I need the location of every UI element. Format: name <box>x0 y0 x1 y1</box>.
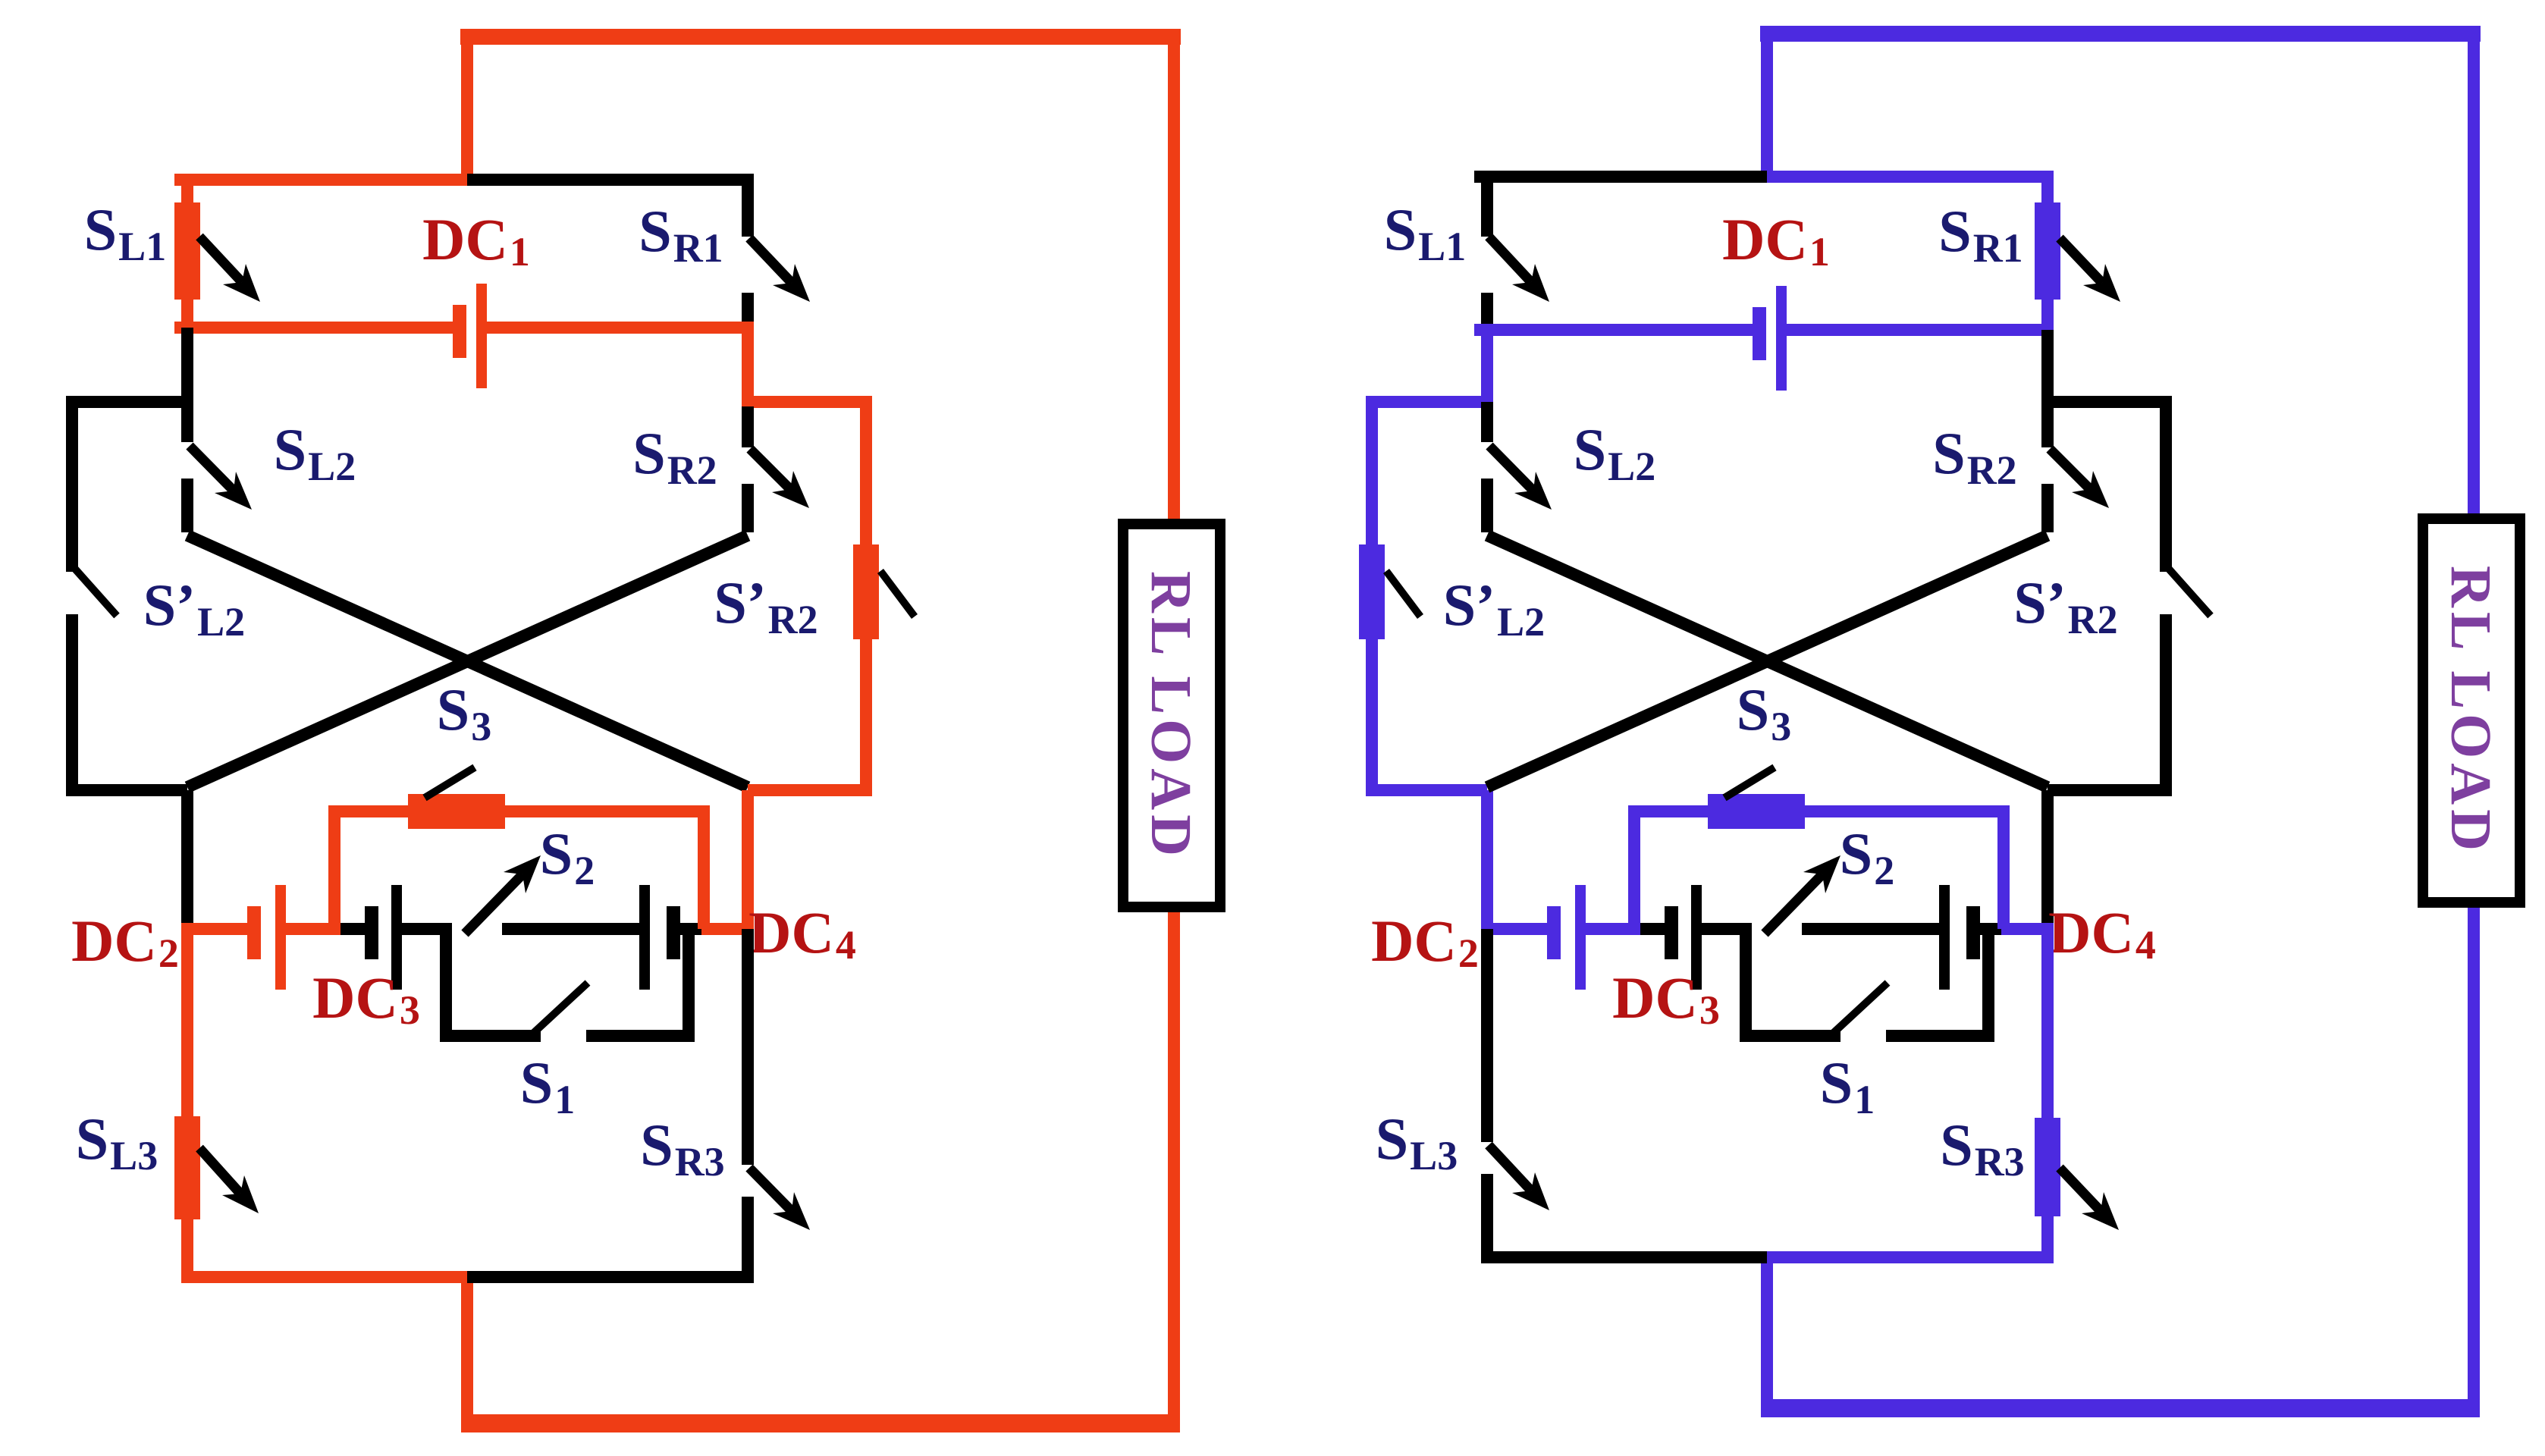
wire bottom rail right segment (left circuit) <box>467 1271 754 1283</box>
wire S'L2 leg lower stub (open) <box>66 614 78 790</box>
wire load top feeder (right circuit) <box>2468 33 2480 523</box>
switch S1 blade <box>527 983 588 1039</box>
wire left column down to DC2 node (right circuit) <box>1481 790 1493 929</box>
wire left column cell1-cell2 (right circuit) <box>1481 330 1493 408</box>
wire SL2 bottom stub (open) <box>181 479 193 532</box>
switch S3 blade <box>1724 767 1775 798</box>
svg-text:RL LOAD: RL LOAD <box>2439 566 2503 855</box>
wire top supply (right circuit) <box>1760 26 2481 42</box>
wire S3 loop top-left (left circuit) <box>328 805 413 817</box>
wire S'L2 leg upper stub (open) <box>66 402 78 572</box>
wire SR3 top stub (open) <box>742 929 754 1165</box>
battery DC1 tall thin plate <box>1776 286 1787 391</box>
wire DC1 rail left of battery (left circuit) <box>174 322 453 334</box>
wire right column down to DC4 node (right circuit) <box>2041 790 2054 929</box>
wire DC2 rail to S3 corner (right circuit) <box>1586 923 1640 935</box>
wire S3 loop left vertical (right circuit) <box>1628 811 1640 929</box>
wire cell-1 top rail left segment (right circuit) <box>1474 171 1767 183</box>
wire rail DC3 to S2 gap <box>1702 923 1752 935</box>
wire SR1 bottom stub (open) <box>742 293 754 328</box>
wire right leg bottom horizontal (left circuit) <box>748 784 872 796</box>
wire right column down to DC4 node (left circuit) <box>742 790 754 929</box>
wire SL3 top stub (open) <box>1481 929 1493 1142</box>
wire S1 loop bottom-left <box>1740 1030 1840 1042</box>
wire left leg bottom horizontal (left circuit) <box>66 784 187 796</box>
wire rail DC4 to node segment (black) <box>679 923 701 935</box>
wire SL2 bottom stub (open) <box>1481 479 1493 532</box>
wire crossing diagonal from SR2 to node B <box>187 535 748 787</box>
wire right column cell1-cell2 (right circuit) <box>2041 330 2054 408</box>
load RL LOAD box (right circuit) <box>2423 519 2520 902</box>
wire cell-1 top rail right segment (left circuit) <box>467 174 754 186</box>
wire S1 loop bottom-left <box>440 1030 541 1042</box>
wire S1 loop right vertical <box>683 929 695 1042</box>
switch S'R2 blade <box>880 571 915 617</box>
switch S3 closed contact bar <box>408 794 505 829</box>
wire rail DC4 node segment (right circuit) <box>2001 923 2054 935</box>
switch SL1 actuation arrow <box>199 237 242 282</box>
battery DC3 short thick plate <box>365 906 378 959</box>
wire rail DC4 to node segment (black) <box>1979 923 2001 935</box>
switch SR2 actuation arrow <box>750 449 790 489</box>
wire DC3 rail segment <box>1640 923 1665 935</box>
switch SL1 closed contact bar <box>174 202 200 300</box>
wire right branch horizontal (right circuit) <box>2048 396 2172 408</box>
wire S1 loop bottom-right <box>586 1030 695 1042</box>
wire S3 loop top-right (left circuit) <box>501 805 710 817</box>
label RL LOAD (right circuit) <box>2439 566 2503 855</box>
switch SL3 actuation arrow <box>1489 1145 1531 1191</box>
switch S3 closed contact bar <box>1708 794 1805 829</box>
switch S2 actuation arrow (crossing rail gap) <box>465 874 522 934</box>
wire bottom return (right circuit) <box>1761 1399 2480 1417</box>
wire SR1 top stub (open) <box>742 180 754 237</box>
wire SR2 top stub (open) <box>2041 406 2054 447</box>
wire top-wire left drop to cell-1 rail (right circuit) <box>1761 26 1773 177</box>
wire left leg bottom horizontal (right circuit) <box>1366 784 1487 796</box>
wire load top feeder (left circuit) <box>1168 36 1180 529</box>
battery DC3 short thick plate <box>1665 906 1678 959</box>
battery DC4 short thick plate <box>1966 906 1980 959</box>
switch S'L2 blade <box>74 567 117 616</box>
switch SR1 actuation arrow <box>749 238 792 283</box>
wire SL1 bottom stub (open) <box>1481 293 1493 330</box>
wire SL3 bottom stub (open) <box>1481 1174 1493 1257</box>
wire S1 loop left vertical <box>440 929 452 1042</box>
wire SL2 top stub (open) <box>181 402 193 442</box>
switch SL2 actuation arrow <box>1489 446 1533 491</box>
battery DC3 tall thin plate <box>1691 885 1702 990</box>
wire SL1 branch (closed, conducting) <box>181 180 193 328</box>
switch SR1 actuation arrow <box>2060 238 2102 283</box>
wire S'L2 leg (closed, conducting) <box>1366 402 1378 790</box>
wire S1 loop left vertical <box>1740 929 1752 1042</box>
battery DC2 short thick plate <box>1547 906 1561 959</box>
battery DC4 tall thin plate <box>1939 885 1950 990</box>
wire DC3 rail segment <box>340 923 366 935</box>
wire S3 loop top-right (right circuit) <box>1800 805 2010 817</box>
switch S'R2 closed contact bar <box>853 544 879 639</box>
wire top supply (left circuit) <box>460 29 1181 45</box>
switch SL3 closed contact bar <box>174 1116 200 1219</box>
wire SR2 top stub (open) <box>742 406 754 447</box>
battery DC4 tall thin plate <box>639 885 650 990</box>
switch SR2 actuation arrow <box>2050 449 2090 489</box>
wire S3 loop right vertical (right circuit) <box>1997 811 2010 929</box>
wire rail DC4 node segment (left circuit) <box>701 923 754 935</box>
wire SL2 top stub (open) <box>1481 402 1493 442</box>
switch SL2 actuation arrow <box>190 446 234 491</box>
wire DC2 rail from node (left circuit) <box>181 923 248 935</box>
wire SL1 top stub (open) <box>1481 177 1493 237</box>
wire cell-1 top rail left segment (left circuit) <box>174 174 467 186</box>
wire crossing diagonal from SR2 to node B <box>1487 535 2048 787</box>
wire bottom rail left segment (left circuit) <box>181 1271 473 1283</box>
wire S3 loop right vertical (left circuit) <box>698 811 710 929</box>
wire SR3 bottom stub (open) <box>742 1197 754 1277</box>
switch SR3 closed contact bar <box>2035 1118 2060 1216</box>
switch SR3 actuation arrow <box>2060 1168 2101 1211</box>
battery DC1 tall thin plate <box>476 284 487 388</box>
switch SR3 actuation arrow <box>749 1168 792 1211</box>
wire left branch horizontal (right circuit) <box>1366 396 1487 408</box>
battery DC1 short thick plate <box>1753 307 1766 360</box>
wire rail S2 gap to DC4 <box>1802 923 1942 935</box>
switch S2 actuation arrow (crossing rail gap) <box>1765 874 1822 934</box>
wire S3 loop top-left (right circuit) <box>1628 805 1713 817</box>
wire rail S2 gap to DC4 <box>502 923 642 935</box>
wire bottom rail left segment (right circuit) <box>1481 1251 1773 1263</box>
wire SL3 branch (closed, conducting) <box>181 929 193 1277</box>
wire load bottom feeder (right circuit) <box>2468 898 2480 1408</box>
battery DC3 tall thin plate <box>391 885 402 990</box>
wire S'R2 leg (closed, conducting) <box>860 402 872 790</box>
wire DC1 rail right of battery (left circuit) <box>487 322 754 334</box>
wire SR2 bottom stub (open) <box>742 484 754 532</box>
wire DC1 rail left of battery (right circuit) <box>1474 324 1753 336</box>
wire right branch horizontal (left circuit) <box>748 396 872 408</box>
wire bottom step-down (right circuit) <box>1761 1257 1773 1408</box>
wire DC2 rail to S3 corner (left circuit) <box>286 923 340 935</box>
wire crossing diagonal from SL2 to node C <box>187 535 748 787</box>
battery DC2 tall thin plate <box>1575 885 1586 990</box>
wire SR3 branch (closed, conducting) <box>2041 929 2054 1257</box>
wire left branch horizontal (left circuit) <box>66 396 187 408</box>
battery DC2 tall thin plate <box>275 885 286 990</box>
battery DC4 short thick plate <box>667 906 680 959</box>
switch S'R2 blade <box>2167 567 2211 616</box>
wire DC1 rail right of battery (right circuit) <box>1787 324 2054 336</box>
label RL LOAD (left circuit) <box>1139 571 1203 861</box>
battery DC2 short thick plate <box>247 906 261 959</box>
wire S'R2 leg upper stub (open) <box>2160 402 2172 572</box>
switch SL1 actuation arrow <box>1489 237 1531 282</box>
wire bottom return (left circuit) <box>461 1414 1180 1432</box>
wire S1 loop bottom-right <box>1886 1030 1994 1042</box>
switch SL3 actuation arrow <box>199 1148 240 1194</box>
switch S3 blade <box>425 767 475 798</box>
wire left column down to DC2 node (left circuit) <box>181 790 193 929</box>
wire S'R2 leg lower stub (open) <box>2160 614 2172 790</box>
wire S1 loop right vertical <box>1982 929 1994 1042</box>
wire DC2 rail from node (right circuit) <box>1481 923 1548 935</box>
wire bottom step-down (left circuit) <box>461 1277 473 1423</box>
wire bottom rail right segment (right circuit) <box>1767 1251 2054 1263</box>
switch S'L2 blade <box>1386 571 1420 617</box>
wire SR2 bottom stub (open) <box>2041 484 2054 532</box>
switch SR1 closed contact bar <box>2035 202 2060 300</box>
battery DC1 short thick plate <box>453 305 466 358</box>
svg-text:RL LOAD: RL LOAD <box>1139 571 1203 861</box>
wire right leg bottom horizontal (right circuit) <box>2048 784 2172 796</box>
wire S3 loop left vertical (left circuit) <box>328 811 340 929</box>
wire SR1 branch (closed, conducting) <box>2041 177 2054 330</box>
switch S'L2 closed contact bar <box>1359 544 1385 639</box>
switch S1 blade <box>1827 983 1888 1039</box>
wire right column cell1-cell2 (left circuit) <box>742 328 754 408</box>
wire top-wire left drop to cell-1 rail (left circuit) <box>461 29 473 180</box>
wire rail DC3 to S2 gap <box>402 923 452 935</box>
load RL LOAD box (left circuit) <box>1123 524 1220 907</box>
wire cell-1 top rail right segment (right circuit) <box>1767 171 2054 183</box>
wire load bottom feeder (left circuit) <box>1168 902 1180 1423</box>
wire left column cell1-cell2 (left circuit) <box>181 328 193 408</box>
wire crossing diagonal from SL2 to node C <box>1487 535 2048 787</box>
